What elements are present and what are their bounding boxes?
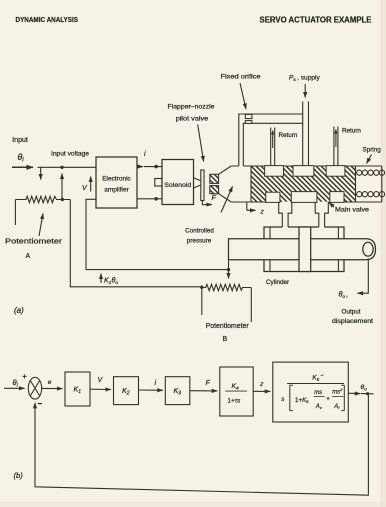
svg-text:A: A <box>26 253 31 260</box>
summing junction <box>28 377 41 399</box>
svg-text:Output: Output <box>342 309 361 316</box>
wire input to amplifier <box>38 166 97 168</box>
svg-text:ms: ms <box>314 390 322 396</box>
svg-text:pilot valve: pilot valve <box>176 116 209 123</box>
svg-text:B: B <box>223 336 228 343</box>
svg-text:Potentiometer: Potentiometer <box>5 239 63 246</box>
pilot chamber pipe to fixed orifice <box>239 114 303 166</box>
piston rod <box>229 239 376 260</box>
block K4 transfer 1+tau-s <box>220 367 253 416</box>
main valve port notch top 3 <box>326 166 345 177</box>
svg-text:e: e <box>48 379 52 386</box>
svg-text:At: At <box>333 404 340 410</box>
svg-text:displacement: displacement <box>332 318 373 325</box>
wire pot A right end to input-voltage node (voltage arrow) <box>61 174 63 200</box>
node pot A lead junction <box>61 198 64 201</box>
node input voltage junction <box>60 166 63 169</box>
svg-text:Av: Av <box>315 404 323 410</box>
potentiometer B zigzag <box>202 284 252 290</box>
svg-text:SERVO ACTUATOR EXAMPLE: SERVO ACTUATOR EXAMPLE <box>260 16 372 25</box>
main valve port notch top 2 <box>293 166 314 177</box>
block K2 <box>114 377 139 405</box>
wire Ps supply arrow <box>304 84 306 98</box>
spring coil circles top row <box>357 170 385 175</box>
op-amp U1 electronic amplifier <box>96 157 137 208</box>
supply pipe Ps <box>303 102 309 167</box>
wire K2 to K3 <box>139 389 163 391</box>
svg-text:Flapper–nozzle: Flapper–nozzle <box>168 104 216 111</box>
main valve port notch bottom 1 <box>266 192 280 202</box>
node solenoid terminal bottom <box>154 197 158 201</box>
svg-text:Input: Input <box>12 137 28 144</box>
wire K3 to K4 <box>190 390 218 392</box>
page bottom edge shading <box>0 502 386 507</box>
wire amplifier to solenoid lower <box>137 198 162 200</box>
pipe valve to cylinder B <box>315 202 328 227</box>
wire pilot valve label arrow <box>198 125 204 162</box>
wire output displacement marker <box>358 259 369 294</box>
svg-text:F: F <box>212 195 217 202</box>
wire return 2 arrow <box>335 130 337 148</box>
main valve housing right end <box>381 166 383 202</box>
wire pot B right terminal <box>250 288 252 323</box>
block K3 <box>165 377 190 405</box>
svg-text:Controlled: Controlled <box>185 228 214 235</box>
svg-text:Cylinder: Cylinder <box>266 279 289 286</box>
svg-text:Solenoid: Solenoid <box>164 182 191 189</box>
piston <box>299 227 311 272</box>
flapper stem <box>194 178 201 188</box>
svg-text:amplifier: amplifier <box>104 187 129 194</box>
wire feedback into amplifier lower input <box>86 199 229 269</box>
svg-text:DYNAMIC ANALYSIS: DYNAMIC ANALYSIS <box>16 15 79 24</box>
wire amplifier to solenoid current i <box>137 166 143 168</box>
pilot valve cone <box>219 166 232 202</box>
return pipe 2 <box>334 127 338 167</box>
wire pot A label arrow <box>39 214 43 237</box>
wire pot B left terminal <box>201 288 203 316</box>
solenoid <box>162 160 194 205</box>
wire K1-theta-o arrow <box>100 274 102 284</box>
svg-text:Return: Return <box>279 132 298 139</box>
wire wiper arrow of potentiometer A <box>40 167 42 179</box>
wire fixed orifice label arrow <box>240 83 246 109</box>
node solenoid terminal top <box>154 165 158 169</box>
svg-text:+: + <box>326 396 330 403</box>
svg-text:Return: Return <box>342 128 361 135</box>
main valve port notch bottom 2 <box>291 192 317 203</box>
wire feedback loop <box>35 394 368 496</box>
rod end eye <box>363 242 373 256</box>
cylinder body <box>264 227 344 272</box>
wire pot A track to pot B track (outer feedback) <box>70 200 202 287</box>
nozzle block upper <box>210 174 219 183</box>
main valve port notch top 1 <box>265 166 284 177</box>
wire spool displacement z arrow <box>247 202 256 210</box>
minus sign at feedback input <box>38 403 42 405</box>
return pipe 1 <box>271 128 275 167</box>
flapper bar <box>201 170 204 201</box>
svg-text:pressure: pressure <box>187 238 212 245</box>
svg-text:Main valve: Main valve <box>335 207 370 214</box>
wire K5 block to output <box>348 392 360 394</box>
svg-text:+: + <box>22 372 27 381</box>
wire pot A left terminal <box>14 200 16 226</box>
nozzle block lower <box>210 186 219 194</box>
svg-text:Fixed orifice: Fixed orifice <box>221 74 262 81</box>
solenoid plunger stub <box>155 179 162 187</box>
block K5 actuator transfer function <box>273 362 349 422</box>
svg-text:(b): (b) <box>14 471 24 480</box>
fixed orifice <box>245 114 252 118</box>
node pot B left junction <box>200 286 203 289</box>
svg-text:Input voltage: Input voltage <box>51 151 90 158</box>
wire controlled pressure label arrow <box>221 187 233 213</box>
svg-text:Potentiometer: Potentiometer <box>206 323 250 330</box>
spring coil circles bottom row <box>357 192 385 197</box>
cylinder end cap lines <box>270 227 338 272</box>
wire rod to pot B wiper link <box>228 260 230 279</box>
wire summer to K1 <box>42 387 63 389</box>
wire K4 to K5 block <box>253 390 270 392</box>
svg-text:1+τs: 1+τs <box>227 398 241 405</box>
wire return 1 arrow <box>272 131 274 149</box>
main valve housing bottom edge <box>231 201 382 203</box>
node feedback tap <box>227 268 230 271</box>
block K1 <box>65 372 90 406</box>
wire input into summer <box>4 387 25 389</box>
main valve port notch bottom 3 <box>330 192 344 203</box>
main valve housing top edge <box>231 165 382 167</box>
pipe valve to cylinder A <box>279 202 292 227</box>
wire input arrow <box>12 166 33 168</box>
page right edge shading <box>381 0 386 507</box>
svg-text:Electronic: Electronic <box>102 176 131 183</box>
svg-text:F: F <box>206 380 211 387</box>
wire main valve label arrow <box>329 203 334 208</box>
svg-text:Spring: Spring <box>363 147 382 154</box>
wire spring label arrow <box>367 155 372 164</box>
svg-text:(a): (a) <box>14 306 24 315</box>
node output junction <box>366 392 369 395</box>
potentiometer A zigzag <box>15 196 70 202</box>
svg-text:z: z <box>259 381 264 388</box>
main valve spool (hatched) <box>251 166 356 201</box>
wire flapper force F arrow <box>202 201 212 205</box>
wire K1 to K2 <box>90 388 111 390</box>
svg-text:z: z <box>260 209 265 216</box>
